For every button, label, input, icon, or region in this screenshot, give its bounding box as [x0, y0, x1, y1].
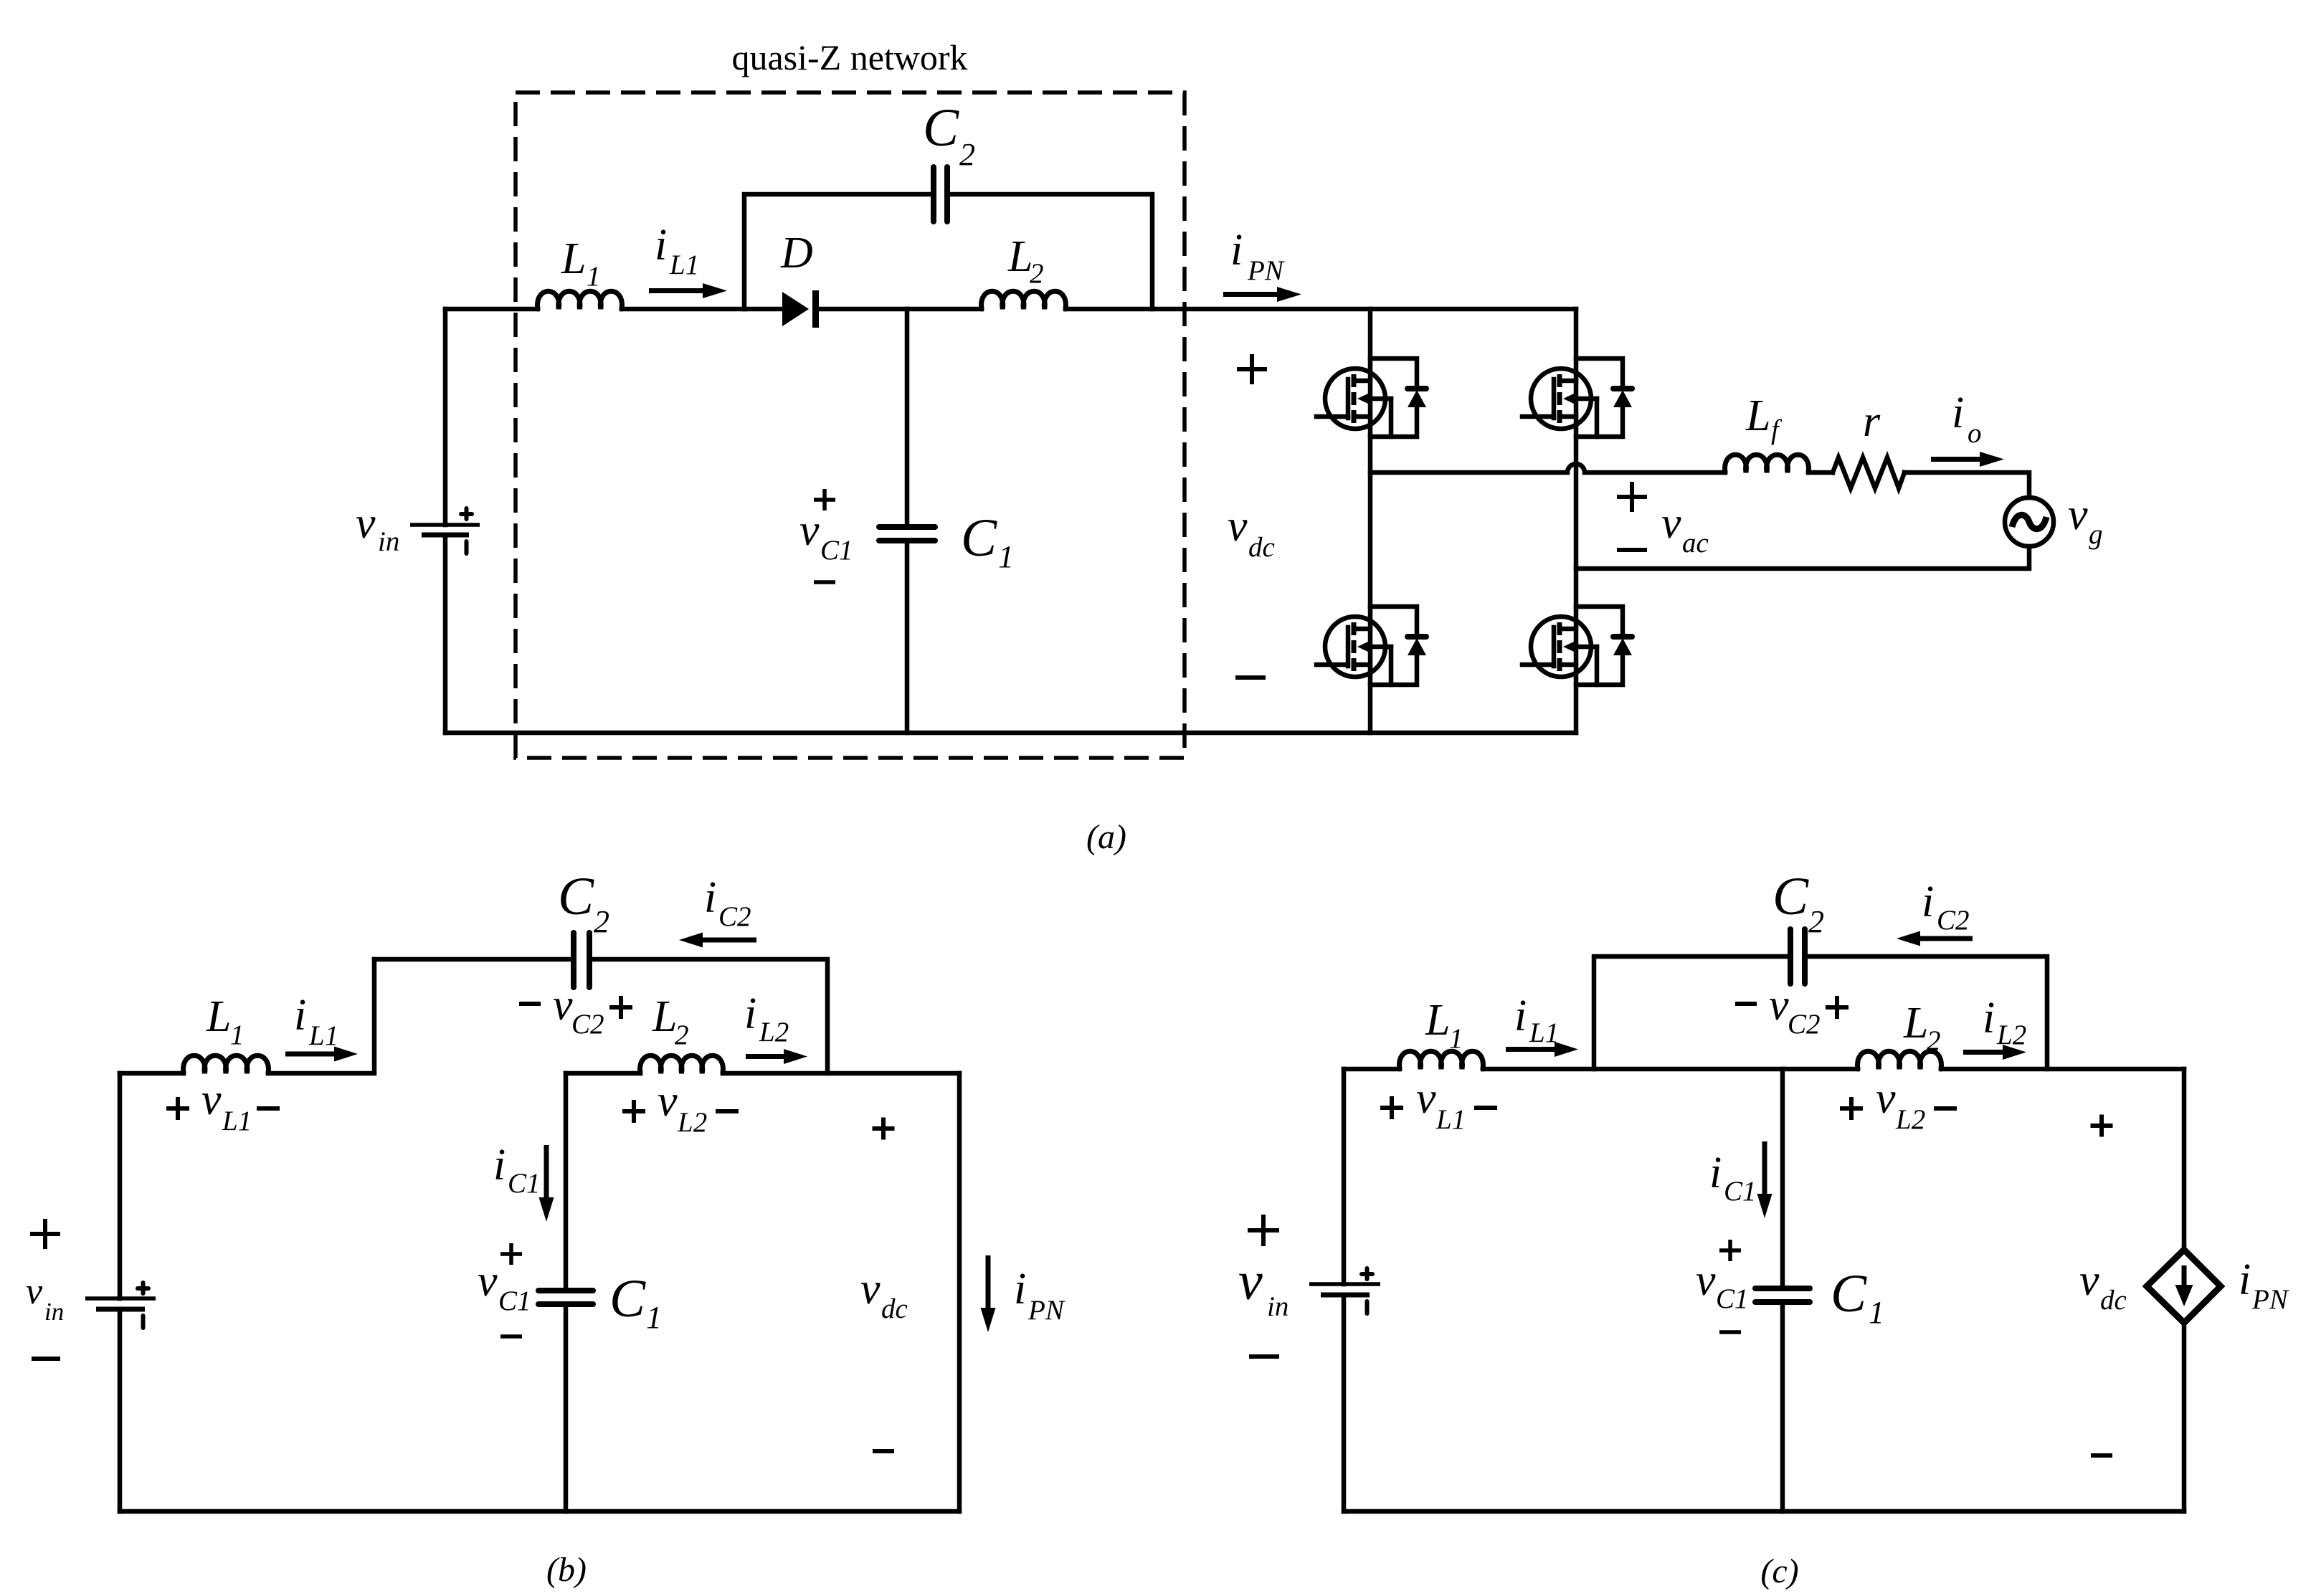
arrow iL1: [285, 1047, 358, 1062]
svg-text:PN: PN: [2251, 1284, 2289, 1315]
arrow iL1: [649, 283, 727, 298]
svg-text:1: 1: [998, 539, 1014, 574]
label + vdc - right side: [873, 1118, 895, 1140]
wire: vg bottom to phase B: [1576, 546, 2029, 569]
svg-text:i: i: [1014, 1265, 1026, 1314]
inductor L1: [1400, 1051, 1484, 1069]
svg-text:in: in: [44, 1298, 64, 1326]
svg-text:v: v: [860, 1265, 881, 1314]
wire: left rail: [443, 309, 448, 525]
wire: bottom rail: [120, 1509, 959, 1514]
svg-text:i: i: [1230, 226, 1243, 275]
capacitor C2: [571, 933, 576, 987]
svg-text:2: 2: [1030, 258, 1044, 289]
mosfet Q3: [1316, 607, 1426, 685]
svg-text:ac: ac: [1682, 528, 1709, 559]
svg-text:D: D: [780, 229, 813, 277]
wire: L2 to right rail: [723, 1071, 959, 1076]
svg-text:i: i: [704, 873, 716, 922]
label +vC1-: [1719, 1240, 1741, 1261]
wire: top wire vin to L1: [120, 1071, 184, 1076]
svg-text:v: v: [553, 981, 573, 1030]
svg-text:L: L: [1745, 391, 1770, 440]
wire: Lf to r: [1808, 470, 1833, 475]
svg-text:i: i: [655, 221, 667, 270]
svg-text:C: C: [558, 867, 594, 926]
inductor L2: [640, 1055, 723, 1073]
svg-text:(c): (c): [1760, 1552, 1798, 1590]
svg-text:v: v: [201, 1075, 222, 1124]
battery plus mark: [138, 1283, 148, 1328]
wire: phase A with hop over right leg: [1370, 464, 1725, 472]
arrow iC1: [1757, 1141, 1772, 1218]
wire: C1 riser: [1780, 1069, 1785, 1288]
arrow io: [1931, 452, 2004, 467]
arrow inside diamond: [2175, 1265, 2193, 1306]
source vg: [2005, 498, 2054, 546]
wire: right rail bottom: [2182, 1323, 2187, 1511]
svg-text:i: i: [744, 989, 756, 1038]
svg-text:C: C: [1831, 1264, 1867, 1324]
wire: top rail left segment: [445, 307, 538, 312]
svg-text:C2: C2: [1788, 1009, 1821, 1040]
current source iPN diamond: [2147, 1250, 2221, 1323]
label + - right side: [2091, 1115, 2113, 1137]
svg-text:C1: C1: [1724, 1176, 1757, 1207]
svg-text:L2: L2: [1895, 1104, 1925, 1135]
svg-text:2: 2: [675, 1020, 689, 1050]
svg-text:i: i: [1514, 992, 1527, 1040]
inductor L1: [184, 1055, 269, 1073]
svg-text:2: 2: [1927, 1025, 1941, 1056]
svg-text:in: in: [1267, 1291, 1288, 1322]
wire: L2 segment: [566, 1071, 640, 1076]
svg-text:v: v: [1876, 1074, 1896, 1123]
arrow iC1: [539, 1145, 554, 1222]
svg-text:v: v: [1416, 1074, 1436, 1123]
label +vL1-: [1380, 1096, 1403, 1119]
label +vL2-: [1840, 1097, 1863, 1120]
wire: main wire L2 to right rail: [1941, 1067, 2184, 1072]
svg-text:g: g: [2089, 519, 2103, 550]
svg-text:2: 2: [1808, 904, 1824, 939]
svg-text:1: 1: [1869, 1295, 1884, 1330]
label -vC2+: [1735, 1002, 1757, 1006]
capacitor C1: [538, 1288, 593, 1293]
svg-text:C1: C1: [498, 1286, 531, 1316]
svg-text:L1: L1: [308, 1020, 338, 1051]
svg-text:C: C: [923, 98, 959, 158]
svg-text:L2: L2: [1996, 1020, 2026, 1050]
svg-text:PN: PN: [1247, 255, 1285, 286]
wire: main wire L1 to L2: [1483, 1067, 1858, 1072]
arrow iPN: [1223, 287, 1301, 302]
wire: top rail L2 to bridge: [1066, 307, 1576, 312]
svg-text:quasi-Z network: quasi-Z network: [731, 37, 967, 77]
battery plus mark: [1362, 1268, 1372, 1314]
svg-text:C1: C1: [508, 1168, 541, 1199]
quasi-Z network dashed box: [516, 92, 1185, 758]
svg-text:L: L: [206, 992, 231, 1041]
svg-text:L1: L1: [669, 250, 699, 280]
arrow iC2: [679, 933, 756, 948]
capacitor C1: [879, 524, 935, 530]
svg-text:C2: C2: [571, 1009, 604, 1040]
svg-text:o: o: [1968, 418, 1982, 449]
diode D: [782, 292, 809, 326]
svg-text:dc: dc: [1248, 532, 1275, 563]
wire: left rail: [118, 1073, 123, 1298]
wire: C1 branch: [905, 309, 910, 527]
svg-text:1: 1: [230, 1020, 245, 1050]
svg-text:v: v: [1661, 499, 1681, 548]
svg-text:v: v: [2068, 490, 2088, 539]
arrow iL2: [746, 1049, 807, 1064]
svg-text:v: v: [26, 1271, 43, 1312]
svg-text:C2: C2: [718, 901, 751, 932]
svg-text:C1: C1: [820, 535, 853, 566]
svg-text:L1: L1: [1435, 1104, 1466, 1135]
svg-text:L2: L2: [759, 1017, 789, 1048]
svg-text:v: v: [1228, 502, 1248, 551]
label vin with +/-: [30, 1219, 60, 1249]
svg-text:i: i: [294, 991, 306, 1040]
battery vin: [1309, 1282, 1380, 1286]
wire: C1 riser: [564, 1073, 569, 1291]
svg-text:L: L: [652, 992, 677, 1041]
svg-text:v: v: [799, 506, 820, 555]
wire: main wire left: [1344, 1067, 1400, 1072]
label +vL1-: [166, 1097, 189, 1120]
svg-text:dc: dc: [2100, 1285, 2127, 1316]
svg-text:(b): (b): [546, 1551, 587, 1589]
svg-text:1: 1: [646, 1300, 662, 1335]
svg-text:1: 1: [587, 261, 601, 292]
svg-text:L: L: [1425, 996, 1450, 1045]
label vdc: [1237, 354, 1267, 384]
capacitor C2: [1788, 929, 1793, 984]
battery plus mark: [461, 508, 472, 554]
wire: C2 branch: [1594, 956, 1790, 1069]
wire: top rail diode to L2: [818, 307, 982, 312]
label +vL2-: [622, 1100, 645, 1123]
svg-text:dc: dc: [881, 1293, 908, 1324]
wire: right rail top: [2182, 1069, 2187, 1250]
arrow iL1: [1506, 1042, 1578, 1057]
svg-text:C2: C2: [1937, 905, 1970, 936]
svg-text:L1: L1: [1529, 1017, 1559, 1048]
svg-text:v: v: [356, 499, 376, 548]
wire: bottom rail: [445, 731, 1576, 736]
svg-text:i: i: [1709, 1149, 1722, 1197]
mosfet Q2: [1522, 358, 1632, 437]
wire: bridge left leg: [1368, 309, 1373, 733]
svg-text:v: v: [1696, 1256, 1716, 1305]
svg-text:r: r: [1863, 397, 1881, 446]
wire: C2 branch: [744, 194, 934, 309]
wire: r to vg: [1904, 472, 2029, 498]
arrow iPN: [981, 1255, 996, 1332]
wire: top rail L1 to diode: [622, 307, 782, 312]
svg-text:i: i: [1922, 878, 1934, 926]
wire: C2 branch left: [374, 957, 574, 962]
svg-text:L: L: [1903, 999, 1928, 1048]
svg-text:C1: C1: [1716, 1283, 1749, 1314]
wire: bridge right leg: [1574, 309, 1579, 733]
arrow iL2: [1963, 1045, 2026, 1060]
inductor L2: [1858, 1051, 1942, 1069]
label -vC2+: [519, 1002, 541, 1006]
svg-text:i: i: [493, 1141, 506, 1189]
label +vC1-: [814, 489, 835, 510]
inductor L2: [982, 291, 1066, 309]
mosfet Q1: [1316, 358, 1426, 437]
svg-text:C: C: [1772, 867, 1809, 926]
svg-text:v: v: [2079, 1256, 2099, 1305]
svg-text:L2: L2: [677, 1107, 707, 1138]
wire: right rail: [957, 1073, 962, 1511]
svg-text:v: v: [658, 1077, 678, 1126]
svg-text:L1: L1: [222, 1106, 252, 1136]
capacitor C2: [931, 167, 936, 222]
svg-text:in: in: [378, 526, 399, 557]
wire: C2 branch right: [589, 959, 827, 1073]
svg-text:C: C: [961, 508, 997, 568]
svg-text:PN: PN: [1028, 1295, 1066, 1326]
wire: bottom rail: [1344, 1509, 2184, 1514]
label vin with +/-: [1248, 1215, 1279, 1246]
svg-text:2: 2: [594, 904, 609, 939]
label +vC1-: [500, 1243, 522, 1265]
svg-text:2: 2: [959, 137, 975, 172]
battery vin: [410, 523, 480, 527]
svg-text:C: C: [609, 1269, 646, 1329]
mosfet Q4: [1522, 607, 1632, 685]
battery vin: [85, 1296, 156, 1301]
svg-text:i: i: [1952, 389, 1964, 437]
svg-text:v: v: [478, 1257, 498, 1306]
wire: L1 to C2 riser: [268, 959, 374, 1073]
inductor L1: [538, 291, 622, 309]
svg-text:v: v: [1238, 1251, 1263, 1311]
svg-text:(a): (a): [1086, 818, 1126, 856]
svg-text:1: 1: [1449, 1023, 1463, 1054]
inductor Lf: [1725, 455, 1809, 472]
resistor r: [1833, 457, 1904, 488]
wire: left rail: [1342, 1069, 1347, 1284]
svg-text:i: i: [2239, 1255, 2251, 1304]
svg-text:L: L: [561, 234, 586, 283]
svg-text:v: v: [1769, 981, 1789, 1030]
arrow iC2: [1897, 931, 1973, 946]
svg-text:i: i: [1983, 994, 1995, 1042]
label vac: [1617, 482, 1647, 512]
capacitor C1: [1755, 1286, 1810, 1291]
